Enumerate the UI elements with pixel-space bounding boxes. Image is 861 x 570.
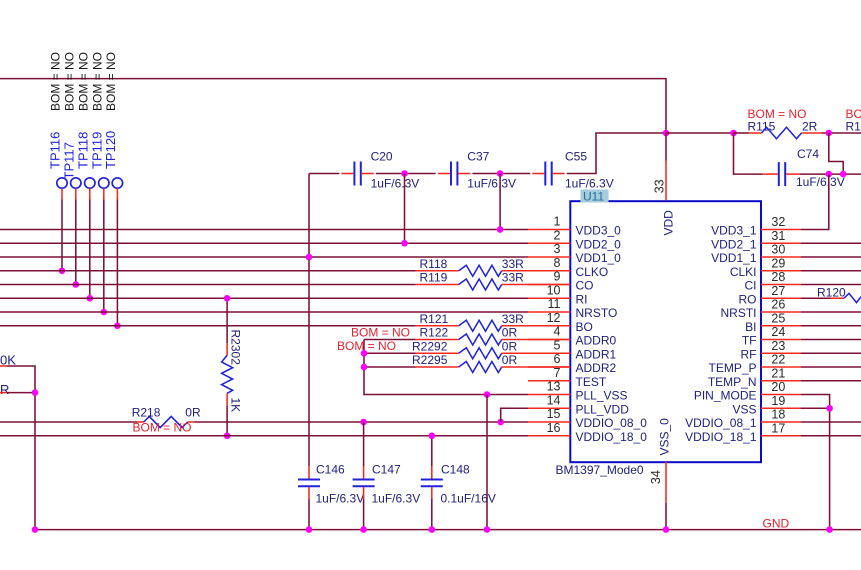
R118 right pin xyxy=(502,270,571,272)
svg-text:PLL_VSS: PLL_VSS xyxy=(576,389,628,403)
svg-text:BOM = NO: BOM = NO xyxy=(337,339,396,353)
R218 left pin xyxy=(137,421,144,423)
junction C147 top xyxy=(360,419,367,426)
wire bus row pin11 xyxy=(0,311,528,313)
wire left R net xyxy=(6,392,35,394)
R115 right pin xyxy=(802,132,823,134)
pin 24 TF stub xyxy=(761,339,801,341)
wire C147 top xyxy=(363,422,365,466)
pin 13 PLL_VSS stub xyxy=(528,394,570,396)
svg-text:32: 32 xyxy=(771,215,785,229)
junction C20-C37 tap xyxy=(401,170,408,177)
svg-text:26: 26 xyxy=(771,298,785,312)
svg-text:13: 13 xyxy=(547,380,561,394)
wire to R118 xyxy=(0,270,416,272)
junction C37-C55 tap xyxy=(497,170,504,177)
C146 top pin xyxy=(308,466,310,479)
resistor R2302 body xyxy=(222,355,233,393)
C55 left pin xyxy=(532,173,544,175)
junction R2302 top xyxy=(224,295,231,302)
pin 20 PIN_MODE stub xyxy=(761,394,801,396)
svg-text:7: 7 xyxy=(554,366,561,380)
capacitor C148 xyxy=(421,479,443,481)
testpoint TP116 pad xyxy=(57,178,67,188)
pin 16 VDDIO_18_0 stub xyxy=(528,435,570,437)
R118 left pin xyxy=(416,270,459,272)
R120 left pin xyxy=(831,297,845,299)
R2295 right pin xyxy=(502,366,571,368)
C20 right pin xyxy=(362,173,374,175)
wire TP117 to bus xyxy=(75,200,77,285)
pin 1 VDD3_0 stub xyxy=(528,229,570,231)
wire C20/C146 vertical xyxy=(308,174,310,467)
op: IC U11 BM1397_Mode0 body xyxy=(570,201,761,462)
svg-text:33: 33 xyxy=(652,179,666,193)
pin 2 VDD2_0 stub xyxy=(528,242,570,244)
junction R2295 left xyxy=(361,364,368,371)
pin 7 TEST stub xyxy=(528,380,570,382)
wire VDDIO_18_0 row xyxy=(0,435,528,437)
resistor R121 body xyxy=(459,320,502,331)
svg-text:33R: 33R xyxy=(502,271,524,285)
svg-text:9: 9 xyxy=(554,270,561,284)
wire VDD2_1 to edge xyxy=(801,242,861,244)
pin 29 CLKI stub xyxy=(761,270,801,272)
svg-text:33R: 33R xyxy=(502,312,524,326)
pin 34 VSS_0 xyxy=(665,462,667,503)
svg-text:VDD2_1: VDD2_1 xyxy=(711,237,757,251)
pin 10 RI stub xyxy=(528,297,570,299)
svg-text:U11: U11 xyxy=(583,189,604,203)
pin 4 ADDR0 stub xyxy=(528,339,570,341)
R218 right pin xyxy=(188,421,195,423)
svg-text:0R: 0R xyxy=(502,353,518,367)
testpoint TP119 pad xyxy=(99,178,109,188)
pin 33 VDD xyxy=(665,161,667,201)
wire tap to VDD2_0 xyxy=(404,174,406,244)
svg-text:0R: 0R xyxy=(185,406,201,420)
svg-text:C148: C148 xyxy=(441,463,470,477)
svg-text:VDD3_1: VDD3_1 xyxy=(711,224,757,238)
svg-text:BM1397_Mode0: BM1397_Mode0 xyxy=(556,463,644,477)
resistor R120 body (clipped) xyxy=(844,293,861,302)
svg-text:24: 24 xyxy=(771,325,785,339)
svg-text:R121: R121 xyxy=(420,312,449,326)
svg-text:BOM = NO: BOM = NO xyxy=(90,52,104,111)
pin 8 CLKO stub xyxy=(528,270,570,272)
pin 5 ADDR1 stub xyxy=(528,352,570,354)
capacitor C146 xyxy=(298,479,320,481)
svg-text:CLKO: CLKO xyxy=(576,265,609,279)
svg-text:CI: CI xyxy=(745,279,757,293)
svg-text:BI: BI xyxy=(745,320,756,334)
wire bus row pin3 xyxy=(0,256,528,258)
svg-text:19: 19 xyxy=(771,394,785,408)
svg-text:VDD3_0: VDD3_0 xyxy=(576,224,622,238)
wire VDD net to C74 tap xyxy=(666,132,734,134)
capacitor C37 xyxy=(450,162,452,186)
svg-text:0R: 0R xyxy=(502,339,518,353)
svg-text:CLKI: CLKI xyxy=(730,265,757,279)
junction GND PIN_MODE/VSS xyxy=(826,526,833,533)
wire to R218 xyxy=(0,421,137,423)
svg-text:BOM = NO: BOM = NO xyxy=(62,52,76,111)
wire VSS to GND drop xyxy=(801,407,830,409)
svg-text:C55: C55 xyxy=(565,150,587,164)
wire to R115 xyxy=(734,132,750,134)
pin stub left 10K resistor xyxy=(0,365,6,367)
svg-text:RO: RO xyxy=(739,292,757,306)
junction left nets xyxy=(32,389,39,396)
wire RI to R2302 xyxy=(226,298,228,343)
C74 left pin xyxy=(764,173,778,175)
wire to R121 xyxy=(0,325,416,327)
svg-text:6: 6 xyxy=(554,352,561,366)
svg-text:BOM = NO: BOM = NO xyxy=(133,421,192,435)
svg-text:17: 17 xyxy=(771,421,785,435)
testpoint TP118 pad xyxy=(85,178,95,188)
svg-text:29: 29 xyxy=(771,256,785,270)
resistor R122 body xyxy=(459,334,502,345)
svg-text:16: 16 xyxy=(547,421,561,435)
svg-text:BO: BO xyxy=(576,320,593,334)
svg-text:2R: 2R xyxy=(802,120,818,134)
svg-text:30: 30 xyxy=(771,243,785,257)
svg-text:C37: C37 xyxy=(467,150,489,164)
junction GND PLL_VSS xyxy=(484,526,491,533)
junction VDD2_0 xyxy=(401,240,408,247)
svg-text:TEMP_N: TEMP_N xyxy=(708,375,757,389)
svg-text:1uF/6.3V: 1uF/6.3V xyxy=(316,492,365,506)
pin 9 CO stub xyxy=(528,284,570,286)
wire TP116 to bus xyxy=(61,200,63,271)
svg-text:0R: 0R xyxy=(502,326,518,340)
wire GND rail xyxy=(35,529,861,531)
pin 15 VDDIO_08_0 stub xyxy=(528,421,570,423)
wire C147 to GND xyxy=(363,499,365,530)
svg-text:VDDIO_08_1: VDDIO_08_1 xyxy=(685,416,757,430)
wire VDD top rail xyxy=(0,79,666,133)
pin stub of TP119 xyxy=(103,188,105,199)
wire bus row pin2 xyxy=(0,242,528,244)
capacitor C20 xyxy=(353,162,355,186)
svg-text:27: 27 xyxy=(771,284,785,298)
svg-text:VDD1_1: VDD1_1 xyxy=(711,251,757,265)
svg-text:R120: R120 xyxy=(817,285,846,299)
svg-text:11: 11 xyxy=(548,297,561,311)
C148 top pin xyxy=(431,466,433,479)
pin stub of TP118 xyxy=(89,188,91,199)
junction R2292 left xyxy=(361,350,368,357)
svg-text:12: 12 xyxy=(547,311,561,325)
R2295 left pin xyxy=(416,366,459,368)
svg-text:3: 3 xyxy=(554,242,561,256)
svg-text:14: 14 xyxy=(547,393,561,407)
resistor R218 body xyxy=(144,416,188,427)
pin 11 NRSTO stub xyxy=(528,311,570,313)
svg-text:31: 31 xyxy=(771,229,785,243)
pin 6 ADDR2 stub xyxy=(528,366,570,368)
C37 left pin xyxy=(438,173,450,175)
svg-text:15: 15 xyxy=(547,407,561,421)
R115 left pin xyxy=(749,132,761,134)
pin 3 VDD1_0 stub xyxy=(528,256,570,258)
svg-text:R115: R115 xyxy=(748,120,776,134)
wire TP119 to bus xyxy=(103,200,105,313)
R121 right pin xyxy=(502,325,571,327)
wire R115 to R116 xyxy=(822,132,861,134)
junction GND C146 xyxy=(306,526,313,533)
svg-text:RI: RI xyxy=(576,292,588,306)
pin 14 PLL_VDD stub xyxy=(528,407,570,409)
svg-text:1K: 1K xyxy=(229,398,243,413)
svg-text:ADDR2: ADDR2 xyxy=(576,361,617,375)
testpoint TP120 pad xyxy=(112,178,122,188)
pin 17 VDDIO_18_1 stub xyxy=(761,435,801,437)
svg-text:PLL_VDD: PLL_VDD xyxy=(576,402,630,416)
capacitor C147 xyxy=(353,479,375,481)
svg-text:VSS: VSS xyxy=(732,402,756,416)
pin stub of TP120 xyxy=(116,188,118,199)
wire C55 to VDD net xyxy=(567,133,666,174)
svg-text:CO: CO xyxy=(576,279,594,293)
svg-text:1: 1 xyxy=(554,215,561,229)
wire TF to edge xyxy=(801,339,861,341)
svg-text:1uF/6.3V: 1uF/6.3V xyxy=(372,492,421,506)
junction PLL_VDD jog xyxy=(497,419,504,426)
wire TEMP_P to edge xyxy=(801,366,861,368)
C147 top pin xyxy=(363,466,365,479)
wire PIN_MODE to GND xyxy=(801,395,830,530)
pin 19 VSS stub xyxy=(761,407,801,409)
C55 right pin xyxy=(553,173,565,175)
wire to R2295 xyxy=(364,366,416,368)
wire C74 right to edge xyxy=(800,173,861,175)
junction GND left net xyxy=(32,526,39,533)
svg-text:VDD1_0: VDD1_0 xyxy=(576,251,622,265)
svg-text:R122: R122 xyxy=(420,326,449,340)
pin 32 VDD3_1 stub xyxy=(761,229,801,231)
junction PLL_VSS gnd drop xyxy=(484,391,491,398)
svg-text:20: 20 xyxy=(771,380,785,394)
wire C74 left lead xyxy=(734,133,764,174)
wire BI to edge xyxy=(801,325,861,327)
R122 right pin xyxy=(502,339,571,341)
svg-text:2: 2 xyxy=(554,228,561,242)
R119 right pin xyxy=(502,284,571,286)
svg-text:23: 23 xyxy=(771,339,785,353)
svg-text:ADDR0: ADDR0 xyxy=(576,334,617,348)
svg-text:VDDIO_18_0: VDDIO_18_0 xyxy=(576,430,648,444)
junction C74/VDD3_1 drop xyxy=(826,171,833,178)
junction C148 top xyxy=(429,432,436,439)
pin 23 RF stub xyxy=(761,352,801,354)
svg-text:8: 8 xyxy=(554,256,561,270)
junction GND pin34 xyxy=(663,526,670,533)
wire R115 to C74 lead jog xyxy=(829,133,843,174)
wire TP118 to bus xyxy=(89,200,91,299)
svg-text:VDD2_0: VDD2_0 xyxy=(576,237,622,251)
wire CI to edge xyxy=(801,284,861,286)
pin 26 NRSTI stub xyxy=(761,311,801,313)
R2292 right pin xyxy=(502,352,571,354)
svg-text:C74: C74 xyxy=(797,147,819,161)
svg-text:1uF/6.3V: 1uF/6.3V xyxy=(467,177,516,191)
C148 bottom pin xyxy=(431,487,433,499)
junction TP116 xyxy=(59,267,66,274)
wire C148 top xyxy=(431,436,433,466)
svg-text:BOM = NO: BOM = NO xyxy=(104,52,118,111)
svg-text:TP116: TP116 xyxy=(48,132,63,169)
svg-text:VDDIO_08_0: VDDIO_08_0 xyxy=(576,416,648,430)
R121 left pin xyxy=(416,325,459,327)
wire PLL_VDD jog xyxy=(501,408,528,422)
wire CLKI to edge xyxy=(801,270,861,272)
svg-text:BOM = NO: BOM = NO xyxy=(76,52,90,111)
svg-text:R: R xyxy=(0,382,9,397)
svg-text:R2292: R2292 xyxy=(412,339,448,353)
svg-text:22: 22 xyxy=(771,353,785,367)
C20 left pin xyxy=(341,173,353,175)
wire ADDR pulldown chain to PLL_VSS xyxy=(364,340,528,395)
testpoint TP117 pad xyxy=(71,178,81,188)
wire down to VDD3_1 pin32 xyxy=(801,174,829,229)
svg-text:5: 5 xyxy=(554,338,561,352)
pin 28 CI stub xyxy=(761,284,801,286)
wire RF to edge xyxy=(801,352,861,354)
svg-text:21: 21 xyxy=(771,366,785,380)
wire to R122 xyxy=(364,339,416,341)
wire PLL_VSS to GND xyxy=(486,395,488,530)
R119 left pin xyxy=(416,284,459,286)
pin 18 VDDIO_08_1 stub xyxy=(761,421,801,423)
junction TP118 xyxy=(87,295,94,302)
svg-text:34: 34 xyxy=(649,470,663,484)
wire RO to R120 xyxy=(801,297,831,299)
junction VSS xyxy=(826,405,833,412)
wire left net to GND xyxy=(6,366,35,530)
junction C74 tap xyxy=(730,130,737,137)
svg-text:TP117: TP117 xyxy=(61,142,76,179)
svg-text:1uF/6.3V: 1uF/6.3V xyxy=(796,175,845,189)
wire C20-C37 xyxy=(376,173,436,175)
svg-text:R116: R116 xyxy=(846,120,861,134)
pin 31 VDD2_1 stub xyxy=(761,242,801,244)
R122 left pin xyxy=(416,339,459,341)
wire VDD1_1 to edge xyxy=(801,256,861,258)
pin 22 TEMP_P stub xyxy=(761,366,801,368)
wire tap to VDD3_0 xyxy=(499,174,501,230)
resistor R118 body xyxy=(459,265,502,276)
wire C20 left lead xyxy=(309,173,339,175)
resistor R115 body xyxy=(762,127,802,138)
svg-text:TP120: TP120 xyxy=(103,131,118,169)
wire pin34 to GND xyxy=(665,503,667,530)
designator U11 highlight xyxy=(581,190,609,203)
pin 27 RO stub xyxy=(761,297,801,299)
resistor R2295 body xyxy=(459,362,502,373)
svg-text:28: 28 xyxy=(771,270,785,284)
svg-text:TEMP_P: TEMP_P xyxy=(708,361,756,375)
wire R2302 to VDDIO_18_0 row xyxy=(226,405,228,435)
junction R2302 bottom xyxy=(224,432,231,439)
R2292 left pin xyxy=(416,352,459,354)
svg-text:18: 18 xyxy=(771,408,785,422)
junction R115/R116 xyxy=(826,130,833,137)
wire R218 to chip xyxy=(194,421,528,423)
svg-text:NRSTO: NRSTO xyxy=(576,306,618,320)
svg-text:1uF/6.3V: 1uF/6.3V xyxy=(371,177,420,191)
pin stub left 0R resistor xyxy=(0,392,6,394)
R2302 bottom pin xyxy=(226,393,228,405)
svg-text:BOM = NO: BOM = NO xyxy=(351,326,410,340)
pin stub of TP117 xyxy=(75,188,77,199)
junction VDD pin33 xyxy=(663,130,670,137)
svg-text:VDDIO_18_1: VDDIO_18_1 xyxy=(685,430,757,444)
svg-text:0.1uF/16V: 0.1uF/16V xyxy=(441,492,496,506)
capacitor C74 xyxy=(778,162,780,186)
wire C146 to GND xyxy=(308,499,310,530)
pin 21 TEMP_N stub xyxy=(761,380,801,382)
svg-text:VSS_0: VSS_0 xyxy=(658,418,672,456)
svg-text:4: 4 xyxy=(554,325,561,339)
svg-text:VDD: VDD xyxy=(662,210,676,236)
junction TP117 xyxy=(73,281,80,288)
junction GND C148 xyxy=(429,526,436,533)
C147 bottom pin xyxy=(363,487,365,499)
svg-text:33R: 33R xyxy=(502,257,524,271)
svg-text:R218: R218 xyxy=(132,406,161,420)
wire VDDIO_08_1 to edge xyxy=(801,421,861,423)
wire TEMP_N to edge xyxy=(801,380,861,382)
pin 30 VDD1_1 stub xyxy=(761,256,801,258)
svg-text:25: 25 xyxy=(771,311,785,325)
C74 right pin xyxy=(786,173,800,175)
capacitor C55 xyxy=(544,162,546,186)
pin 25 BI stub xyxy=(761,325,801,327)
svg-text:R119: R119 xyxy=(420,271,448,285)
wire to R2292 xyxy=(364,352,416,354)
wire VDDIO_18_1 to edge xyxy=(801,435,861,437)
svg-text:TP118: TP118 xyxy=(75,132,90,169)
C146 bottom pin xyxy=(308,487,310,499)
pin 12 BO stub xyxy=(528,325,570,327)
svg-text:PIN_MODE: PIN_MODE xyxy=(694,389,757,403)
svg-text:NRSTI: NRSTI xyxy=(721,306,757,320)
svg-text:R2302: R2302 xyxy=(229,330,243,366)
svg-text:R118: R118 xyxy=(420,257,448,271)
wire C37-C55 xyxy=(472,173,530,175)
svg-text:RF: RF xyxy=(741,347,757,361)
svg-text:ADDR1: ADDR1 xyxy=(576,347,617,361)
C37 right pin xyxy=(458,173,470,175)
wire to R119 xyxy=(0,284,416,286)
junction TP120 xyxy=(114,322,121,329)
wire bus row pin10 xyxy=(0,297,528,299)
junction jog xyxy=(840,171,847,178)
R2302 top pin xyxy=(226,343,228,355)
wire NRSTI to edge xyxy=(801,311,861,313)
svg-text:C147: C147 xyxy=(372,463,401,477)
svg-text:GND: GND xyxy=(763,516,790,530)
svg-text:C146: C146 xyxy=(316,463,345,477)
resistor R119 body xyxy=(459,279,502,290)
svg-text:TEST: TEST xyxy=(576,375,607,389)
junction GND C147 xyxy=(360,526,367,533)
svg-text:10: 10 xyxy=(547,283,561,297)
svg-text:TF: TF xyxy=(742,334,757,348)
junction VDD3_0 xyxy=(497,226,504,233)
